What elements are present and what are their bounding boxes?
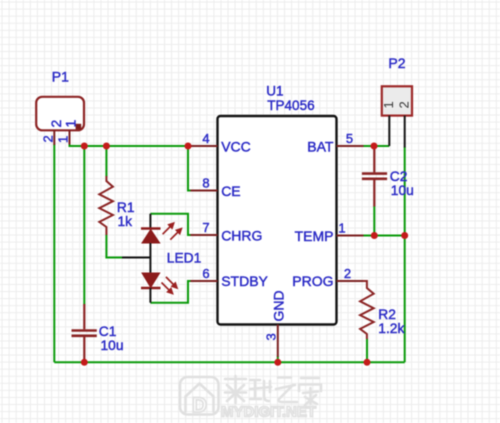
svg-text:1: 1 <box>381 101 396 108</box>
svg-text:R1: R1 <box>117 200 135 215</box>
junction node TEMP/C2 <box>371 232 378 239</box>
svg-text:VCC: VCC <box>221 138 251 154</box>
svg-text:6: 6 <box>202 266 209 281</box>
svg-text:CHRG: CHRG <box>221 227 262 243</box>
svg-text:1: 1 <box>56 136 71 143</box>
wire GND pin to rail <box>277 356 279 362</box>
LED1 middle pin vertical <box>149 243 151 274</box>
U1 pin 8 CE stub <box>191 190 218 192</box>
wire LED1 top to CHRG <box>150 214 191 235</box>
wire P2 pin2 down right rail <box>404 147 406 362</box>
svg-text:4: 4 <box>202 131 209 146</box>
wire CE branch <box>188 146 191 191</box>
capacitor C2 <box>362 146 387 207</box>
wire R1 top branch <box>105 146 107 177</box>
svg-text:C2: C2 <box>390 169 408 184</box>
svg-text:P1: P1 <box>52 68 69 84</box>
connector P1 <box>36 97 84 131</box>
resistor R2 <box>360 281 374 339</box>
svg-text:1: 1 <box>63 120 79 128</box>
svg-text:1.2k: 1.2k <box>378 321 404 336</box>
wire C1 top branch <box>83 146 85 305</box>
svg-text:1: 1 <box>338 221 345 236</box>
svg-text:P2: P2 <box>388 55 405 71</box>
LED1 top pin <box>149 214 151 229</box>
svg-text:U1: U1 <box>266 84 283 99</box>
connector P2 <box>382 86 412 115</box>
U1 pin 5 BAT stub <box>337 145 364 147</box>
svg-text:LED1: LED1 <box>167 251 202 266</box>
svg-text:D: D <box>192 394 207 417</box>
P2 pin 1 (black) <box>388 116 390 146</box>
junction node BAT/C2 <box>371 143 378 150</box>
junction node VCC/CE <box>185 143 192 150</box>
wire left rail from P1 pin2 down <box>53 144 55 362</box>
U1 pin 1 TEMP stub <box>337 235 364 237</box>
capacitor C1 <box>72 304 97 362</box>
U1 pin 4 VCC stub <box>191 145 218 147</box>
LED1 bottom pin <box>149 288 151 303</box>
svg-text:TP4056: TP4056 <box>267 98 314 113</box>
wire C2 bottom to TEMP row <box>373 206 375 236</box>
svg-text:2: 2 <box>40 135 55 142</box>
svg-text:10u: 10u <box>101 338 124 353</box>
LED1 top arrows <box>163 223 182 240</box>
junction node rail/GND <box>274 359 281 366</box>
svg-text:TEMP: TEMP <box>295 228 334 244</box>
svg-text:C1: C1 <box>99 324 117 339</box>
svg-text:10u: 10u <box>391 183 414 198</box>
P1 pin 1 stub <box>69 130 71 144</box>
wire R1 bottom to LED1 common pin <box>106 235 122 258</box>
svg-text:3: 3 <box>263 333 278 340</box>
U1 pin 7 CHRG stub <box>191 234 218 236</box>
svg-text:8: 8 <box>202 176 209 191</box>
wire BAT to P2 pin1 <box>363 145 389 147</box>
U1 pin 6 STDBY stub <box>191 280 218 282</box>
svg-text:1k: 1k <box>118 214 133 229</box>
LED1 common pin horizontal <box>122 257 150 259</box>
LED1 bottom triangle <box>142 273 160 287</box>
P1 pin 2 stub <box>53 130 55 145</box>
svg-text:BAT: BAT <box>307 138 334 154</box>
svg-text:2: 2 <box>344 266 351 281</box>
svg-text:MYDIGIT.NET: MYDIGIT.NET <box>221 404 316 421</box>
svg-text:CE: CE <box>221 183 240 199</box>
LED1 bottom arrows <box>162 277 177 294</box>
P2 pin 2 (black) <box>404 116 406 148</box>
junction node rail/C1 <box>81 359 88 366</box>
svg-text:5: 5 <box>346 131 353 146</box>
junction node rail/R2 <box>364 359 371 366</box>
junction node TEMP/P2 <box>401 232 408 239</box>
LED1 top cathode bar <box>141 227 161 230</box>
wire TEMP row <box>363 235 405 237</box>
svg-text:2: 2 <box>48 120 64 128</box>
LED1 bottom cathode bar <box>141 287 161 290</box>
wire LED1 bottom to STDBY <box>150 281 191 303</box>
watermark chinese characters <box>225 376 321 405</box>
svg-text:PROG: PROG <box>292 273 333 289</box>
resistor R1 <box>99 176 113 235</box>
U1 pin 3 GND stub <box>277 325 279 358</box>
svg-text:2: 2 <box>396 101 411 108</box>
junction node VCC/C1 <box>81 143 88 150</box>
svg-text:7: 7 <box>202 220 209 235</box>
LED1 dual LED <box>122 214 181 303</box>
svg-text:GND: GND <box>271 290 287 321</box>
svg-text:R2: R2 <box>378 307 396 322</box>
junction node VCC/R1 <box>103 143 110 150</box>
wire VCC rail from P1 pin1 to U1 pin4 <box>70 143 191 146</box>
U1 pin 2 PROG stub <box>337 280 364 282</box>
wire bottom GND rail <box>54 361 404 363</box>
watermark logo <box>180 377 219 415</box>
IC U1 TP4056 body <box>218 116 337 325</box>
wire R2 bottom branch <box>366 339 368 363</box>
svg-text:STDBY: STDBY <box>221 273 268 289</box>
LED1 top triangle <box>142 230 160 244</box>
